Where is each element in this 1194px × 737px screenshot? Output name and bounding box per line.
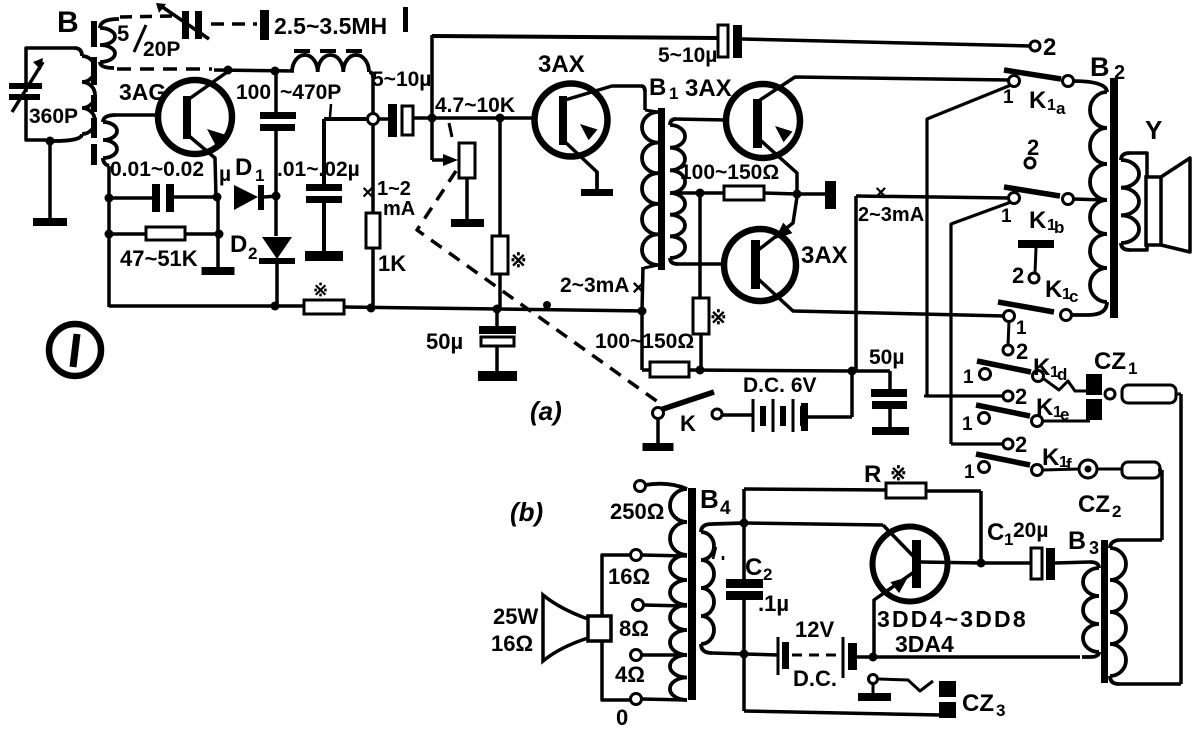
svg-text:50µ: 50µ [426,329,463,354]
svg-text:※: ※ [710,307,727,329]
svg-text:2: 2 [1027,135,1039,160]
svg-text:µ: µ [219,163,231,186]
svg-text:Y: Y [1145,115,1162,145]
svg-text:100~150Ω: 100~150Ω [680,161,779,184]
svg-text:250Ω: 250Ω [610,499,664,524]
svg-text:B: B [1090,52,1110,82]
svg-text:3DD4~3DD8: 3DD4~3DD8 [877,606,1028,632]
svg-text:C: C [745,554,762,581]
svg-text:1: 1 [1001,206,1012,227]
svg-text:100~150Ω: 100~150Ω [595,330,694,353]
svg-text:K: K [1033,354,1051,381]
svg-text:1: 1 [1016,318,1027,339]
svg-text:20µ: 20µ [1013,519,1048,542]
svg-text:(b): (b) [510,497,543,527]
svg-text:8Ω: 8Ω [619,616,649,641]
svg-text:B: B [57,6,79,39]
svg-text:16Ω: 16Ω [491,631,533,656]
svg-text:1: 1 [962,414,973,435]
svg-text:K: K [1029,207,1047,234]
svg-text:K: K [1045,276,1063,303]
svg-text:100: 100 [236,81,271,104]
svg-text:2~3mA: 2~3mA [560,274,629,297]
svg-text:B: B [700,484,719,514]
svg-text:4: 4 [720,498,731,519]
svg-text:3: 3 [996,701,1005,720]
svg-text:1: 1 [669,84,678,103]
svg-text:(a): (a) [530,396,562,426]
svg-text:D: D [235,154,252,181]
svg-text:50µ: 50µ [869,346,904,369]
svg-text:2~3mA: 2~3mA [858,204,924,226]
svg-text:3: 3 [1089,538,1099,558]
svg-text:CZ: CZ [962,690,994,717]
svg-text:1K: 1K [378,251,406,276]
svg-text:2: 2 [1015,384,1027,409]
svg-text:5: 5 [117,21,129,46]
svg-text:C: C [987,519,1004,546]
svg-text:0.01~0.02: 0.01~0.02 [110,158,204,181]
svg-text:a: a [1056,99,1066,118]
svg-text:K: K [1029,87,1047,114]
svg-text:D.C. 6V: D.C. 6V [743,374,817,397]
svg-text:.1µ: .1µ [758,591,789,616]
svg-text:2: 2 [1043,34,1056,61]
svg-text:×: × [362,182,374,204]
svg-text:c: c [1069,287,1078,306]
svg-text:47~51K: 47~51K [120,246,198,271]
svg-text:~470P: ~470P [280,81,341,104]
svg-text:4Ω: 4Ω [615,662,645,687]
svg-text:25W: 25W [493,604,538,629]
svg-text:K: K [680,411,696,436]
svg-text:3AX: 3AX [538,51,585,78]
svg-text:1: 1 [1128,359,1137,378]
svg-text:D: D [230,231,247,258]
svg-text:5~10µ: 5~10µ [372,68,431,91]
svg-text:mA: mA [383,198,415,220]
svg-text:×: × [632,275,645,300]
svg-text:※: ※ [510,250,527,272]
svg-text:1~2: 1~2 [377,178,411,200]
svg-text:1: 1 [1003,87,1014,108]
svg-text:1: 1 [1047,97,1056,114]
svg-text:f: f [1066,455,1072,474]
svg-text:2: 2 [1112,502,1121,521]
svg-text:3AX: 3AX [801,242,848,269]
svg-text:2: 2 [1016,339,1028,364]
svg-text:D.C.: D.C. [793,666,837,691]
svg-text:0: 0 [616,705,628,730]
svg-text:3DA4: 3DA4 [895,631,954,657]
svg-text:B: B [1068,527,1086,555]
svg-text:3AX: 3AX [685,75,732,102]
svg-text:2: 2 [1015,432,1027,457]
svg-text:b: b [1054,218,1064,237]
svg-text:1: 1 [964,462,975,483]
svg-text:360P: 360P [29,105,78,128]
svg-text:×: × [875,182,887,204]
svg-text:20P: 20P [143,38,180,61]
svg-text:※: ※ [313,280,328,300]
svg-text:16Ω: 16Ω [608,564,650,589]
svg-text:CZ: CZ [1094,348,1126,375]
svg-text:5~10µ: 5~10µ [658,44,717,67]
svg-text:K: K [1042,444,1060,471]
svg-text:R: R [864,461,881,488]
svg-text:B: B [649,74,666,101]
svg-text:12V: 12V [795,617,834,642]
svg-text:CZ: CZ [1078,491,1110,518]
svg-text:1: 1 [963,367,974,388]
svg-text:2: 2 [248,244,257,263]
svg-text:.01~.02µ: .01~.02µ [277,158,360,181]
svg-text:2: 2 [763,565,772,584]
svg-text:2: 2 [1012,263,1024,288]
svg-text:4.7~10K: 4.7~10K [435,94,515,117]
svg-text:2.5~3.5MH: 2.5~3.5MH [274,13,387,39]
svg-text:1: 1 [255,166,264,185]
